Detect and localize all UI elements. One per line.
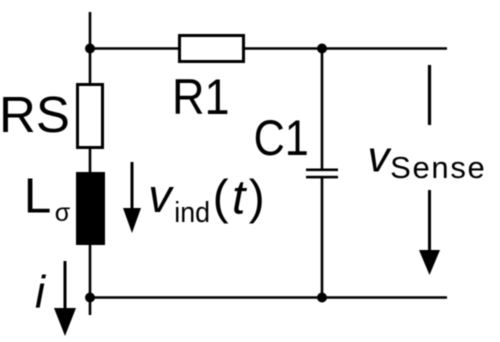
svg-text:R1: R1	[172, 69, 230, 125]
wire capacitor bottom to bottom node	[321, 178, 324, 298]
svg-text:(t): (t)	[213, 172, 269, 225]
arrow v_Sense upper segment	[428, 65, 431, 125]
inductor L	[76, 172, 105, 245]
wire L to bottom node	[89, 244, 92, 315]
svg-text:C1: C1	[254, 110, 309, 166]
arrow i	[54, 261, 76, 336]
wire top horizontal right of R1	[244, 47, 447, 50]
wire top horizontal left of R1	[89, 47, 179, 50]
node bottom-right junction dot	[317, 293, 327, 303]
svg-text:Sense: Sense	[390, 150, 486, 185]
svg-text:σ: σ	[55, 199, 71, 227]
arrow v_Sense lower with head	[419, 190, 440, 275]
wire RS to L	[89, 148, 92, 174]
svg-text:L: L	[24, 168, 52, 223]
svg-text:RS: RS	[0, 86, 70, 143]
node top-left junction dot	[85, 44, 95, 54]
svg-text:ind: ind	[174, 197, 210, 229]
arrow v_ind	[123, 162, 141, 233]
resistor RS	[78, 85, 103, 148]
svg-text:v: v	[148, 169, 174, 222]
wire bottom horizontal	[89, 296, 447, 299]
capacitor C1 bottom plate	[306, 176, 338, 179]
svg-text:v: v	[368, 133, 393, 182]
capacitor C1 top plate	[306, 169, 338, 172]
node top-right junction dot	[317, 44, 327, 54]
wire node to capacitor top	[321, 49, 324, 170]
node bottom-left junction dot	[85, 293, 95, 303]
wire top-left vertical stub	[89, 12, 92, 85]
resistor R1	[180, 36, 244, 62]
svg-text:i: i	[35, 267, 47, 318]
